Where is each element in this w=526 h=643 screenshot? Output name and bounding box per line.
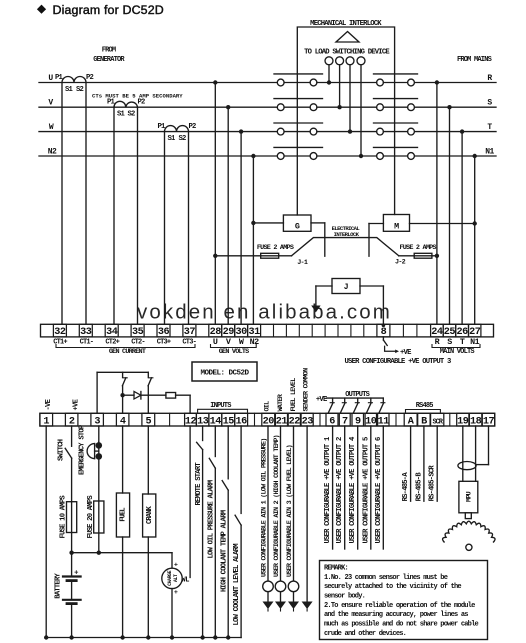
contactor coil G — [283, 215, 311, 231]
bracket MAIN VOLTS — [432, 345, 480, 348]
svg-text:CT2-: CT2- — [131, 339, 145, 347]
switch contact above terminal 5 — [147, 372, 149, 377]
empty strip1 cell dividers — [273, 324, 275, 337]
relay FUEL — [122, 426, 124, 493]
terminal 32 — [53, 324, 66, 337]
svg-text:33: 33 — [80, 327, 92, 338]
fuse F4 20 AMPS — [94, 501, 104, 533]
svg-text:N1: N1 — [485, 147, 494, 156]
svg-text:W: W — [49, 123, 54, 132]
wire bus S (mains) — [414, 106, 496, 108]
wire RS-485-SCR — [436, 426, 438, 501]
terminal A — [404, 413, 417, 426]
wire bus W (generator) — [39, 131, 277, 133]
wire RS-485-A — [410, 426, 412, 501]
svg-text:P2: P2 — [137, 99, 145, 107]
terminal 19 — [457, 413, 469, 426]
svg-text:REMARK:: REMARK: — [324, 565, 348, 573]
wire T drop to terminal — [461, 132, 463, 325]
svg-text:S1: S1 — [117, 111, 126, 119]
wire M coil right to N1 — [410, 223, 475, 225]
terminal 8 — [377, 324, 390, 337]
svg-text:REMOTE START: REMOTE START — [195, 462, 203, 506]
terminal SCR — [431, 413, 444, 426]
svg-text:J-2: J-2 — [395, 259, 406, 267]
svg-text:V: V — [48, 99, 53, 108]
contactor bridge bars row U — [274, 73, 323, 75]
svg-text:T: T — [487, 123, 492, 132]
svg-text:RS-485-SCR: RS-485-SCR — [429, 465, 437, 502]
svg-text:USER CONFIGURABLE +VE OUTPUT 4: USER CONFIGURABLE +VE OUTPUT 4 — [349, 436, 357, 543]
title diamond bullet — [37, 5, 46, 14]
svg-text:T: T — [460, 337, 465, 347]
terminal 35 — [131, 324, 144, 337]
svg-text:FUSE 2 AMPS: FUSE 2 AMPS — [257, 244, 294, 252]
wire G coil right to J-1 post — [311, 222, 325, 224]
svg-text:SCR: SCR — [433, 418, 444, 426]
magnetic pickup MPU body — [459, 481, 478, 513]
terminal 23 — [301, 413, 313, 426]
svg-text:GENERATOR: GENERATOR — [93, 56, 125, 64]
terminal 6 — [326, 413, 338, 426]
terminal 34 — [105, 324, 118, 337]
wire between pole contacts row W — [284, 131, 310, 133]
svg-text:37: 37 — [184, 327, 196, 338]
svg-text:2.To ensure reliable operation: 2.To ensure reliable operation of the mo… — [324, 602, 475, 610]
svg-text:LOW OIL PRESSURE ALARM: LOW OIL PRESSURE ALARM — [208, 480, 216, 558]
resistor/lamp R1 — [166, 393, 176, 399]
wire user output 2 — [344, 426, 346, 549]
svg-text:SWITCH: SWITCH — [57, 439, 65, 461]
terminal 5 — [142, 413, 155, 426]
load terminal circle 1 — [325, 57, 333, 65]
wire N2 drop to terminal — [252, 156, 254, 324]
terminal B — [418, 413, 430, 426]
wire CT1 S2 drop to terminal — [85, 83, 87, 325]
terminal 1 — [40, 413, 53, 426]
load terminal circle 4 — [357, 57, 365, 65]
wire sender common terminal 23 — [306, 426, 308, 602]
terminal 4 — [116, 413, 128, 426]
load terminal circle 2 — [336, 57, 344, 65]
svg-text:RS-485-B: RS-485-B — [415, 472, 423, 502]
wire terminal 3 up — [96, 372, 98, 413]
svg-text:21: 21 — [276, 416, 288, 427]
svg-text:34: 34 — [106, 327, 118, 338]
wire terminal 12 to WL — [189, 426, 191, 578]
wire terminal 1 -VE down to rail — [45, 426, 47, 638]
switch contact output — [332, 398, 334, 403]
node junction N2 to G — [251, 221, 255, 225]
svg-text:and the measuring accuracy, po: and the measuring accuracy, power lines … — [324, 611, 468, 619]
contactor bridge bars row N2 — [274, 146, 323, 148]
fuse F3 10 AMPS — [67, 502, 77, 533]
wire CT3 S2 drop to terminal — [188, 132, 190, 325]
wire S drop to terminal — [449, 107, 451, 324]
svg-text:USER CONFIGURABLE AIN 3 (LOW F: USER CONFIGURABLE AIN 3 (LOW FUEL LEVEL) — [286, 445, 294, 577]
wire load drop 4 — [360, 65, 362, 156]
switch blade below terminal 8 — [382, 337, 384, 340]
wire J right to terminal 8 — [360, 285, 383, 287]
sender ground arrow — [275, 602, 286, 610]
svg-text:vokden en alibaba.com: vokden en alibaba.com — [137, 301, 392, 324]
svg-text:WATER: WATER — [277, 393, 285, 411]
svg-text:USER CONFIGURABLE +VE OUTPUT 1: USER CONFIGURABLE +VE OUTPUT 1 — [324, 436, 332, 543]
MPU tip — [465, 513, 471, 519]
load terminal circle 3 — [346, 57, 354, 65]
switch contact output — [370, 398, 372, 403]
svg-text:3: 3 — [94, 416, 100, 427]
node junction V sense tap — [226, 105, 230, 109]
svg-text:CT1-: CT1- — [80, 339, 94, 347]
terminal 14 — [209, 413, 222, 426]
svg-text:36: 36 — [158, 327, 170, 338]
terminal 13 — [196, 413, 209, 426]
svg-text:MPU: MPU — [465, 491, 473, 502]
terminal 10 — [365, 413, 376, 426]
node junction N1 to M — [473, 221, 477, 225]
svg-text:S1: S1 — [65, 86, 74, 94]
wire mid rail — [72, 552, 172, 554]
wire fuse F1 feed from U — [215, 255, 260, 257]
svg-text:INTERLOCK: INTERLOCK — [334, 231, 360, 238]
svg-text:WL: WL — [182, 576, 190, 584]
svg-text:S: S — [487, 99, 492, 108]
node junction W sense tap — [239, 129, 243, 133]
wire user output 6 — [382, 426, 384, 549]
terminal 2 — [65, 413, 78, 426]
svg-text:+VE: +VE — [400, 349, 412, 357]
svg-text:USER CONFIGURABLE +VE OUTPUT 2: USER CONFIGURABLE +VE OUTPUT 2 — [336, 437, 344, 543]
wire user output 5 — [370, 426, 372, 549]
svg-text:N2: N2 — [48, 148, 57, 157]
terminal 37 — [183, 324, 196, 337]
svg-text:securely attached to the vicin: securely attached to the vicinity of the — [324, 583, 461, 591]
svg-text:+: + — [174, 589, 178, 597]
svg-text:USER CONFIGURABLE +VE OUTPUT 3: USER CONFIGURABLE +VE OUTPUT 3 — [345, 358, 451, 366]
wire user output 1 — [332, 426, 334, 549]
node junction load 1 — [327, 80, 331, 84]
svg-text:Diagram for DC52D: Diagram for DC52D — [53, 3, 164, 17]
mechanical interlock triangle symbol — [336, 32, 359, 43]
terminal 30 — [235, 324, 248, 337]
svg-text:M: M — [394, 221, 399, 231]
svg-text:BATTERY: BATTERY — [55, 573, 63, 599]
sender circle — [275, 581, 286, 592]
switch contact output — [344, 398, 346, 403]
node junction R sense tap — [435, 80, 439, 84]
svg-text:RS-485-A: RS-485-A — [402, 472, 410, 502]
wire top rail of start circuit — [97, 371, 148, 373]
wire N1 drop to terminal — [474, 156, 476, 324]
shield ellipse — [458, 462, 476, 470]
svg-text:GEN VOLTS: GEN VOLTS — [219, 348, 249, 356]
terminal 21 — [275, 413, 287, 426]
wire bus R (mains) — [414, 82, 496, 84]
svg-text:-VE: -VE — [45, 398, 53, 410]
bottom common rail — [46, 637, 241, 639]
node junction load 2 — [337, 105, 341, 109]
svg-text:USER CONFIGURABLE AIN 1 (LOW O: USER CONFIGURABLE AIN 1 (LOW OIL PRESSUR… — [261, 438, 269, 577]
terminal 18 — [469, 413, 481, 426]
svg-text:N2: N2 — [250, 337, 260, 347]
wire bus N2 (generator) — [39, 155, 277, 157]
sender circle — [263, 581, 274, 592]
wire V drop to terminal — [227, 107, 229, 324]
wire bus V (generator) — [39, 106, 277, 108]
wire bus N1 (mains) — [414, 155, 496, 157]
wire CT3 S1 drop to terminal — [164, 132, 166, 325]
svg-text:U: U — [48, 74, 53, 83]
wire user output 4 — [357, 426, 359, 549]
svg-text:FUEL LEVEL: FUEL LEVEL — [290, 378, 298, 412]
svg-text:crude and other devices.: crude and other devices. — [324, 630, 406, 638]
node junction N2 sense tap — [251, 154, 255, 158]
wire W drop to terminal — [240, 132, 242, 325]
wire load drop 2 — [339, 65, 341, 107]
svg-text:INPUTS: INPUTS — [210, 402, 231, 410]
relay J — [332, 279, 360, 294]
switch contact output — [382, 398, 384, 403]
terminal 33 — [79, 324, 92, 337]
contactor pole circles row V — [277, 104, 284, 111]
wire terminal 4 down with junction — [122, 386, 124, 414]
svg-text:R: R — [487, 74, 492, 83]
switch input HIGH COOLANT TEMP ALARM — [227, 426, 229, 479]
sender ground arrow — [263, 602, 274, 610]
terminal 29 — [222, 324, 235, 337]
gear hub hole — [466, 544, 472, 550]
svg-text:S: S — [447, 337, 452, 347]
switch contact above terminal 4 — [122, 372, 124, 377]
wire terminal 18 to MPU — [475, 426, 477, 481]
wire sender USER CONFIGURABLE AIN 1 (LOW OIL PRESSURE) — [267, 426, 269, 581]
wire +VE output 3 arrow — [385, 346, 396, 351]
svg-text:FROM: FROM — [102, 47, 116, 55]
svg-text:V: V — [226, 337, 232, 347]
svg-text:22: 22 — [289, 416, 301, 427]
ground arrow below J — [311, 306, 320, 313]
wire load drop 3 — [349, 65, 351, 132]
wire U drop to terminal — [214, 83, 216, 325]
contactor pole circles row U — [277, 79, 284, 86]
switch input LOW OIL PRESSURE ALARM — [214, 426, 216, 457]
emergency stop button symbol — [87, 444, 95, 459]
svg-text:OIL: OIL — [264, 401, 272, 412]
empty strip2 cell dividers — [169, 413, 171, 426]
wire to terminal 12 — [176, 394, 191, 396]
svg-text:S2: S2 — [178, 135, 186, 143]
svg-text:1.No. 23 common sensor lines m: 1.No. 23 common sensor lines must be — [324, 574, 448, 582]
svg-text:CT1+: CT1+ — [53, 339, 67, 347]
svg-text:32: 32 — [54, 327, 66, 338]
contactor pole circles row W — [277, 128, 284, 135]
node junction N1 sense tap — [473, 154, 477, 158]
svg-text:S2: S2 — [127, 111, 135, 119]
svg-text:CRANK: CRANK — [146, 505, 154, 524]
svg-text:R: R — [435, 337, 441, 347]
wire CT2 S2 drop to terminal — [137, 107, 139, 324]
terminal 3 — [91, 413, 104, 426]
terminal 25 — [443, 324, 456, 337]
svg-text:J: J — [344, 283, 349, 292]
terminal 7 — [339, 413, 350, 426]
wire RS-485-B — [423, 426, 425, 501]
terminal 20 — [262, 413, 275, 426]
terminal strip 1 band — [41, 324, 494, 337]
svg-text:USER CONFIGURABLE AIN 2 (HIGH: USER CONFIGURABLE AIN 2 (HIGH COOLANT TE… — [273, 435, 281, 577]
svg-text:GEN CURRENT: GEN CURRENT — [109, 348, 146, 356]
fuse F1 2 AMPS — [261, 253, 279, 258]
svg-text:+VE: +VE — [73, 398, 81, 410]
node junction R tap to fuse — [435, 254, 439, 258]
svg-text:+: + — [174, 562, 178, 570]
terminal 11 — [378, 413, 389, 426]
switch contact output — [357, 398, 359, 403]
wire CT2 S1 drop to terminal — [113, 107, 115, 324]
wire terminal 17 shield — [488, 426, 490, 465]
terminal 24 — [431, 324, 444, 337]
wire bus T (mains) — [414, 131, 496, 133]
flywheel gear teeth — [443, 521, 496, 542]
contactor pole circles row N2 — [277, 153, 284, 160]
mechanical interlock enclosure — [297, 27, 394, 215]
terminal 36 — [157, 324, 170, 337]
svg-text:P2: P2 — [86, 74, 94, 82]
svg-text:FUEL: FUEL — [120, 508, 128, 522]
svg-text:W: W — [239, 337, 245, 347]
svg-text:TO LOAD SWITCHING DEVICE: TO LOAD SWITCHING DEVICE — [304, 49, 390, 57]
wire CT1 S1 drop to terminal — [61, 83, 63, 325]
diode D1 — [123, 394, 134, 396]
wire J left to ground — [316, 285, 332, 287]
bracket GEN VOLTS — [211, 345, 257, 348]
svg-text:MAIN VOLTS: MAIN VOLTS — [440, 348, 475, 356]
svg-text:S1: S1 — [167, 135, 176, 143]
node junction S sense tap — [447, 105, 451, 109]
svg-text:LOW COOLANT LEVEL ALARM: LOW COOLANT LEVEL ALARM — [233, 544, 241, 626]
svg-text:USER CONFIGURABLE +VE OUTPUT 6: USER CONFIGURABLE +VE OUTPUT 6 — [375, 437, 383, 543]
wire between pole contacts row V — [284, 106, 310, 108]
terminal 12 — [185, 413, 197, 426]
svg-text:sensor body.: sensor body. — [324, 593, 365, 601]
wire terminal 19 to MPU — [462, 426, 464, 481]
wire between pole contacts row N2 — [284, 155, 310, 157]
node junction load 4 — [359, 154, 363, 158]
switch J-1 blade and electrical interlock link and switch J-2 blade — [292, 238, 399, 256]
battery BT1 — [71, 553, 73, 576]
contactor coil M — [383, 215, 409, 232]
wire terminal 2 with switch — [71, 426, 73, 446]
svg-text:P2: P2 — [188, 123, 196, 131]
terminal 28 — [209, 324, 222, 337]
svg-text:MODEL: DC52D: MODEL: DC52D — [200, 369, 249, 377]
wire M coil left to J-2 post — [369, 223, 383, 225]
terminal 26 — [456, 324, 469, 337]
wire load drop 1 — [328, 65, 330, 83]
terminal 27 — [469, 324, 481, 337]
terminal 15 — [222, 413, 235, 426]
terminal 22 — [288, 413, 300, 426]
relay CRANK — [147, 426, 149, 494]
current transformer CT2 — [114, 101, 138, 107]
wire fuse F2 to R — [399, 255, 414, 257]
svg-text:FROM MAINS: FROM MAINS — [457, 56, 492, 64]
svg-text:much as possible and do not sh: much as possible and do not share power … — [324, 621, 479, 629]
terminal 17 — [482, 413, 494, 426]
charge alternator G1 — [171, 553, 173, 569]
svg-text:FUSE 10 AMPS: FUSE 10 AMPS — [60, 495, 68, 539]
switch input REMOTE START — [202, 426, 204, 441]
svg-text:FUSE 20 AMPS: FUSE 20 AMPS — [87, 495, 95, 539]
terminal strip 2 band — [40, 413, 495, 426]
svg-text:S2: S2 — [76, 86, 84, 94]
current transformer CT1 — [62, 77, 86, 83]
terminal 31 — [248, 324, 261, 337]
svg-text:CT2+: CT2+ — [105, 339, 119, 347]
switch blade (battery switch) — [65, 448, 72, 458]
current transformer CT3 — [165, 126, 189, 132]
svg-text:USER CONFIGURABLE +VE OUTPUT 5: USER CONFIGURABLE +VE OUTPUT 5 — [362, 437, 370, 543]
node junction U tap to fuse — [213, 254, 217, 258]
svg-text:G: G — [295, 221, 300, 231]
svg-text:35: 35 — [132, 327, 144, 338]
model label box — [192, 362, 257, 381]
fuse F2 2 AMPS — [414, 253, 432, 258]
svg-text:ALT: ALT — [173, 574, 179, 582]
terminal 9 — [352, 413, 364, 426]
wire sender USER CONFIGURABLE AIN 3 (LOW FUEL LEVEL) — [293, 426, 295, 581]
terminal 16 — [235, 413, 248, 426]
remark note box — [320, 561, 488, 640]
svg-text:+VE: +VE — [316, 396, 328, 404]
switch input LOW COOLANT LEVEL ALARM — [240, 426, 242, 513]
node junction U sense tap — [213, 80, 217, 84]
wire sender USER CONFIGURABLE AIN 2 (HIGH COOLANT TEMP) — [280, 426, 282, 581]
svg-text:CT3+: CT3+ — [157, 339, 171, 347]
svg-text:U: U — [213, 337, 218, 347]
svg-text:SENDER COMMON: SENDER COMMON — [303, 368, 311, 412]
wire G coil left to N2 — [253, 222, 283, 224]
node junction T sense tap — [460, 129, 464, 133]
wire between pole contacts row U — [284, 82, 310, 84]
svg-text:J-1: J-1 — [297, 259, 308, 267]
sender circle — [288, 581, 299, 592]
svg-text:N1: N1 — [470, 337, 480, 347]
wire terminal 3 with emergency stop — [98, 426, 100, 442]
contactor bridge bars row V — [274, 98, 323, 100]
wire R drop to terminal — [436, 83, 438, 325]
bracket GEN CURRENT — [56, 345, 195, 348]
node junction load 3 — [348, 129, 352, 133]
contactor bridge bars row W — [274, 122, 323, 124]
wire bus U (generator) — [39, 82, 277, 84]
sender ground arrow — [288, 602, 299, 610]
svg-text:HIGH COOLANT TEMP ALARM: HIGH COOLANT TEMP ALARM — [220, 510, 228, 592]
svg-text:EMERGENCY STOP: EMERGENCY STOP — [79, 424, 87, 475]
svg-text:FUSE 2 AMPS: FUSE 2 AMPS — [399, 244, 436, 252]
